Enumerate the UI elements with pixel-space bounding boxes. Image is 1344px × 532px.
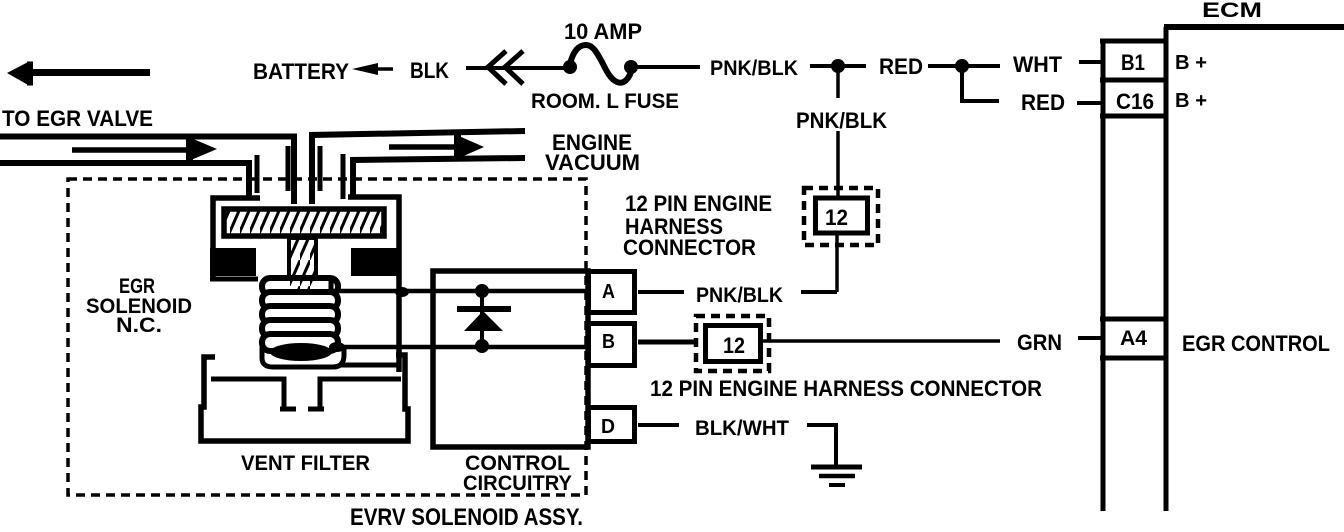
svg-text:12 PIN ENGINE: 12 PIN ENGINE — [625, 191, 772, 216]
svg-text:CONNECTOR: CONNECTOR — [623, 235, 756, 260]
svg-text:12 PIN ENGINE HARNESS CONNECTO: 12 PIN ENGINE HARNESS CONNECTOR — [650, 376, 1042, 401]
svg-text:12: 12 — [825, 205, 848, 230]
svg-text:EGR CONTROL: EGR CONTROL — [1182, 331, 1330, 356]
svg-text:B1: B1 — [1121, 50, 1145, 75]
svg-text:VENT FILTER: VENT FILTER — [241, 452, 370, 475]
svg-text:PNK/BLK: PNK/BLK — [696, 284, 783, 307]
svg-text:TO EGR VALVE: TO EGR VALVE — [2, 106, 153, 131]
svg-text:D: D — [601, 416, 615, 438]
svg-text:ECM: ECM — [1202, 0, 1262, 22]
svg-text:12: 12 — [723, 333, 745, 358]
svg-text:N.C.: N.C. — [116, 314, 162, 337]
svg-text:C16: C16 — [1116, 89, 1154, 114]
svg-text:GRN: GRN — [1017, 330, 1062, 355]
svg-text:B +: B + — [1175, 90, 1207, 112]
svg-text:PNK/BLK: PNK/BLK — [710, 57, 798, 80]
svg-text:RED: RED — [1021, 90, 1065, 115]
svg-text:BATTERY: BATTERY — [253, 59, 349, 84]
svg-text:CIRCUITRY: CIRCUITRY — [463, 472, 572, 495]
svg-text:VACUUM: VACUUM — [545, 150, 640, 175]
svg-text:BLK: BLK — [410, 58, 449, 83]
svg-text:RED: RED — [879, 54, 923, 79]
svg-text:WHT: WHT — [1013, 52, 1063, 77]
svg-text:ROOM. L FUSE: ROOM. L FUSE — [531, 90, 679, 113]
svg-text:PNK/BLK: PNK/BLK — [796, 108, 887, 133]
svg-text:BLK/WHT: BLK/WHT — [695, 417, 789, 440]
svg-text:10 AMP: 10 AMP — [564, 19, 642, 44]
svg-text:EVRV SOLENOID ASSY.: EVRV SOLENOID ASSY. — [350, 504, 583, 531]
svg-text:A: A — [602, 281, 615, 303]
svg-text:A4: A4 — [1120, 327, 1147, 350]
svg-text:B: B — [602, 331, 615, 353]
svg-text:B +: B + — [1175, 52, 1207, 74]
